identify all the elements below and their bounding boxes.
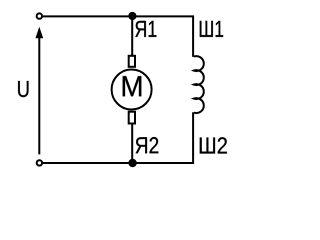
brush terminal bottom [129,112,135,124]
inductor L1 shunt winding [194,56,204,113]
terminal bottom-left [37,160,42,165]
voltage arrow [35,27,43,155]
label Ш1 [200,21,223,37]
junction top [128,12,136,20]
wire right bottom with corner [43,112,193,163]
wire armature top [131,16,133,58]
junction bottom [128,159,136,167]
terminal top-left [37,13,42,18]
motor armature circle [112,70,152,110]
brush terminal top [129,56,135,67]
label M [123,76,142,96]
wire top with right corner [43,16,193,57]
wire armature bottom [131,122,133,163]
label Я2 [136,137,159,153]
label Ш2 [200,137,227,153]
label U [18,81,28,97]
label Я1 [135,21,156,37]
